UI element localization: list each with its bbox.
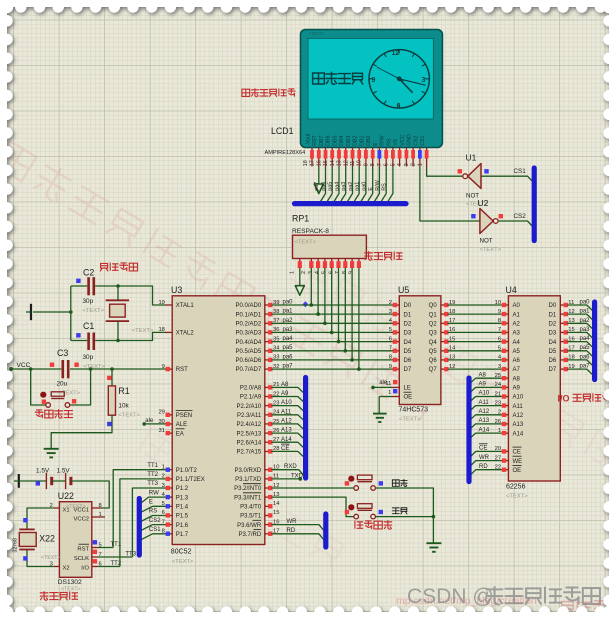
- U3 right pin P0.1/AD1 (38): [265, 313, 272, 315]
- svg-text:A10: A10: [479, 391, 490, 397]
- svg-text:pa4: pa4: [580, 336, 591, 342]
- X22 pin state squares (blue): [23, 518, 27, 522]
- wire LCD pin12 (DB3) to data bus with net label pa3: [348, 167, 353, 202]
- U3 right pin P3.7/RD (17): [265, 533, 272, 535]
- svg-text:CS2: CS2: [413, 135, 419, 145]
- wire LCD pin15 (DB6) to data bus with net label pa6: [327, 167, 332, 202]
- red caption 晶振电路 (crystal oscillator circuit): [100, 263, 137, 271]
- U4 left pin A10 (21): [502, 396, 509, 398]
- svg-text:pa0: pa0: [283, 300, 294, 306]
- LCD clock center dot: [397, 76, 402, 81]
- svg-text:U22: U22: [58, 491, 74, 501]
- svg-text:7: 7: [389, 346, 392, 352]
- svg-text:CS1: CS1: [420, 135, 426, 145]
- U3 right pin P2.6/A14 (27): [265, 441, 272, 443]
- U4 left pin A9 (24): [502, 386, 509, 388]
- svg-text:VCC1: VCC1: [74, 508, 89, 514]
- svg-text:TT3: TT3: [147, 481, 158, 487]
- svg-text:RST: RST: [312, 134, 318, 145]
- wire U5 Q2 to U4 A2: [448, 322, 502, 324]
- faint pink diagonal watermark line B: [290, 253, 616, 471]
- battery pin state square (blue): [36, 481, 40, 485]
- wire RP1 pin3 down to P0.1 net (pa1): [317, 268, 319, 314]
- wire net CE: U3 P2.7 to address bus: [272, 451, 304, 456]
- wire C1 right to XTAL2: [95, 332, 165, 340]
- svg-text:Q1: Q1: [429, 312, 438, 318]
- svg-text:6: 6: [389, 336, 392, 342]
- svg-text:U5: U5: [398, 285, 409, 295]
- U4 left pin A8 (25): [502, 377, 509, 379]
- svg-text:pa1: pa1: [355, 182, 361, 191]
- U3 left pin PSEN (29): [166, 414, 173, 416]
- svg-text:D3: D3: [404, 331, 412, 337]
- svg-text:XTAL2: XTAL2: [176, 331, 195, 337]
- U5 right pin Q4 (15): [441, 341, 448, 343]
- U4 left pin WE (27): [502, 460, 509, 462]
- wire U5 Q3 to U4 A3: [448, 331, 502, 333]
- svg-text:V0: V0: [393, 139, 399, 146]
- wire net TT2: U3 P1.1 to U22 I/O: [120, 479, 166, 567]
- U5 left pin D1 (3): [393, 313, 400, 315]
- svg-text:NOT: NOT: [480, 238, 493, 245]
- svg-text:5: 5: [389, 327, 392, 333]
- U3 right pin P0.5/AD5 (34): [265, 350, 272, 352]
- svg-text:RS: RS: [149, 509, 157, 515]
- svg-text:EA: EA: [176, 431, 184, 437]
- wire CS1 from LCD pin1 to U1 output bubble: [427, 167, 463, 177]
- svg-text:LE: LE: [404, 386, 411, 392]
- bus vertical data bus right of U4 (blue): [592, 302, 597, 380]
- svg-text:30p: 30p: [83, 298, 94, 305]
- svg-text:RXD: RXD: [284, 464, 297, 470]
- U4 right pin D7 (19) with net pa7: [560, 368, 567, 370]
- svg-text:62256: 62256: [506, 484, 526, 491]
- svg-text:<TEXT>: <TEXT>: [172, 559, 194, 565]
- svg-text:A7: A7: [513, 367, 521, 373]
- U5 left pin D0 (2): [393, 304, 400, 306]
- U3 left pin XTAL2 (18): [166, 331, 173, 333]
- wire net RW: U3 P1.3 to local bus: [141, 497, 166, 503]
- svg-text:U4: U4: [506, 285, 517, 295]
- U3 left pin P1.5 (6): [166, 515, 173, 517]
- wire LCD pin9 (DB0) to data bus with net label pa0: [368, 167, 373, 202]
- svg-text:RW: RW: [149, 490, 159, 496]
- svg-text:1: 1: [388, 390, 391, 396]
- svg-text:8: 8: [498, 318, 501, 324]
- wire crystal top to C2 net: [117, 286, 119, 300]
- svg-text:D7: D7: [549, 367, 557, 373]
- svg-text:A10: A10: [281, 400, 292, 406]
- svg-text:P0.3/AD3: P0.3/AD3: [236, 331, 262, 337]
- bus vertical DS1302 control bus (blue): [137, 499, 142, 556]
- U4 right pin D6 (18) with net pa6: [560, 359, 567, 361]
- wire LCD pin16 (DB7) to data bus with net label pa7: [321, 167, 326, 202]
- svg-text:A13: A13: [513, 422, 524, 428]
- overline on CE net label at U4: [479, 443, 488, 445]
- U22 pin VCC1 (8): [92, 507, 102, 509]
- wire address bus to U4 A10 (net A10): [469, 397, 502, 403]
- svg-text:3: 3: [389, 309, 392, 315]
- wire net CS2: U3 P1.6 to local bus: [141, 525, 166, 531]
- LCD pin stubs and pin squares with numbers 1-18: [303, 148, 429, 167]
- svg-text:TXD: TXD: [291, 473, 304, 479]
- faint pink diagonal watermark line C: [137, 427, 346, 569]
- push button 调分 (set minute): [348, 504, 354, 510]
- VCC terminal dot: [9, 367, 13, 371]
- ground symbol (keypad): [426, 542, 441, 544]
- U3 left pin P1.4 (5): [166, 505, 173, 507]
- wire LCD pin7 (R/W) to data bus with net label R/W: [381, 167, 386, 202]
- svg-text:P3.0/RXD: P3.0/RXD: [235, 468, 262, 474]
- U3 left pin P1.3 (4): [166, 496, 173, 498]
- LCD clock minute hand: [399, 79, 425, 85]
- svg-text:P0.7/AD7: P0.7/AD7: [236, 367, 262, 373]
- svg-text:RS: RS: [386, 138, 392, 146]
- svg-text:DB7: DB7: [319, 135, 325, 145]
- wire C2 left to left rail: [71, 285, 88, 287]
- red caption 液晶显示电路 (LCD display circuit): [242, 89, 295, 97]
- svg-text:pa7: pa7: [580, 364, 591, 370]
- svg-text:CE: CE: [479, 446, 487, 452]
- svg-text:Q3: Q3: [429, 331, 438, 337]
- svg-text:TT1: TT1: [147, 463, 158, 469]
- svg-text:A14: A14: [513, 431, 524, 437]
- svg-text:P2.2/A10: P2.2/A10: [237, 404, 262, 410]
- U3 right pin P3.0/RXD (10): [265, 469, 272, 471]
- svg-text:A12: A12: [281, 418, 292, 424]
- svg-text:P3.5/T1: P3.5/T1: [240, 514, 262, 520]
- svg-text:<TEXT>: <TEXT>: [132, 328, 154, 334]
- svg-text:C2: C2: [83, 268, 94, 278]
- svg-text:A5: A5: [513, 349, 521, 355]
- U3 left pin P1.2 (3): [166, 487, 173, 489]
- svg-text:SCLK: SCLK: [74, 556, 89, 562]
- svg-text:C1: C1: [83, 321, 94, 331]
- svg-text:<TEXT>: <TEXT>: [399, 417, 421, 423]
- svg-text:pa4: pa4: [334, 182, 340, 191]
- wire address bus to U4 A9 (net A9): [469, 387, 502, 393]
- svg-text:D4: D4: [404, 340, 412, 346]
- svg-text:WE: WE: [513, 459, 523, 465]
- svg-text:P0.2/AD2: P0.2/AD2: [236, 322, 262, 328]
- wire RP1 pin8 down to P0.6 net (pa6): [351, 268, 353, 360]
- wire net A9: U3 P2.1 to address bus: [272, 397, 304, 402]
- svg-text:D5: D5: [404, 349, 412, 355]
- svg-text:X22: X22: [39, 534, 55, 544]
- svg-text:CSDN @: CSDN @: [407, 585, 494, 608]
- svg-text:CS1: CS1: [149, 527, 161, 533]
- U3 right pin P2.5/A13 (26): [265, 432, 272, 434]
- blue diamond marker on pa0 wire: [303, 301, 309, 307]
- LCD LCD1 AMPIRE128X64 outer frame: [301, 30, 443, 148]
- overlines on U3 P3 pin names INT0 INT1 WR RD: [243, 483, 261, 485]
- svg-text:XTAL1: XTAL1: [176, 303, 195, 309]
- memory U4 62256 body: [508, 296, 560, 481]
- svg-text:pa2: pa2: [580, 318, 591, 324]
- U5 left pin D5 (7): [393, 350, 400, 352]
- svg-text:DB0: DB0: [366, 135, 372, 145]
- reset push button: [31, 369, 46, 405]
- svg-text:A11: A11: [479, 400, 490, 406]
- U3 left pin P1.6 (7): [166, 524, 173, 526]
- U5 pin OE (1): [392, 396, 399, 398]
- U3 right pin P2.7/A15 (28): [265, 450, 272, 452]
- faint pink diagonal watermark line A: [0, 139, 437, 422]
- wire net A10: U3 P2.2 to address bus: [272, 406, 304, 411]
- U4 right pin D2 (13) with net pa2: [560, 322, 567, 324]
- svg-text:pa1: pa1: [580, 309, 591, 315]
- U3 left pin P1.7 (8): [166, 533, 173, 535]
- ground symbol (reset circuit): [44, 448, 59, 450]
- U5 left pin D2 (4): [393, 322, 400, 324]
- wire key 调时 to ground junction: [375, 488, 433, 517]
- U5 left pin D4 (6): [393, 341, 400, 343]
- svg-text:<TEXT>: <TEXT>: [83, 308, 105, 314]
- U4 left pin A11 (23): [502, 405, 509, 407]
- svg-text:P1.5: P1.5: [176, 514, 189, 520]
- latch U5 74HC573 body: [399, 296, 441, 405]
- svg-text:<TEXT>: <TEXT>: [295, 240, 317, 246]
- svg-text:Q2: Q2: [429, 322, 438, 328]
- svg-text:CE: CE: [513, 450, 521, 456]
- wire net A11: U3 P2.3 to address bus: [272, 415, 304, 420]
- svg-text:A8: A8: [513, 376, 521, 382]
- U3 right pin P2.4/A12 (25): [265, 423, 272, 425]
- svg-text:74HC573: 74HC573: [399, 407, 429, 414]
- svg-text:RP1: RP1: [292, 214, 309, 224]
- wire net CS1: U3 P1.7 to local bus: [141, 534, 166, 540]
- U5 right pin Q7 (12): [441, 368, 448, 370]
- svg-text:P1.3: P1.3: [176, 495, 189, 501]
- svg-text:pa3: pa3: [580, 327, 591, 333]
- wire net E: U3 P1.4 to local bus: [141, 506, 166, 512]
- wire X1 to crystal X22: [27, 508, 54, 529]
- svg-text:<TEXT>: <TEXT>: [61, 587, 81, 593]
- svg-text:2: 2: [389, 300, 392, 306]
- svg-text:P3.6/WR: P3.6/WR: [237, 523, 262, 529]
- svg-text:9: 9: [389, 364, 392, 370]
- svg-text:R/W: R/W: [375, 179, 381, 190]
- svg-text:Q4: Q4: [429, 340, 438, 346]
- U4 left pin A1 (9): [502, 313, 509, 315]
- red caption 键盘电路 (keyboard circuit): [355, 521, 392, 530]
- wire address bus to U4 A8 (net A8): [469, 378, 502, 384]
- wire net pa1: U3 P0.1 to U5 D1: [272, 313, 394, 315]
- svg-text:P2.0/A8: P2.0/A8: [240, 386, 262, 392]
- wire net A13: U3 P2.5 to address bus: [272, 433, 304, 438]
- U4 right pin D5 (17) with net pa5: [560, 350, 567, 352]
- svg-text:P3.2/INT0: P3.2/INT0: [234, 486, 262, 492]
- gray CSDN watermark text: [407, 585, 600, 608]
- svg-text:D6: D6: [404, 358, 412, 364]
- svg-text:A12: A12: [513, 413, 524, 419]
- svg-text:P1.2: P1.2: [176, 486, 189, 492]
- svg-text:VCC: VCC: [400, 134, 406, 145]
- U22 pin X2 (3): [54, 566, 60, 568]
- LCD clock face circle: [369, 50, 429, 108]
- wire U2 to CS2 bus entry: [498, 221, 532, 227]
- wire ground to rail: [33, 311, 71, 313]
- bus vertical address bus beside U3 (blue): [303, 378, 308, 479]
- U22 pin SCLK (7) to net TT3: [92, 556, 98, 558]
- bus vertical right of inverters (blue): [532, 168, 537, 241]
- wire LCD pin13 (DB4) to data bus with net label pa4: [341, 167, 346, 202]
- wire RP1 pin4 down to P0.2 net (pa2): [324, 268, 326, 324]
- capacitor C3 plates (on rail): [61, 360, 64, 378]
- wire RP1 pin1 to terminal arrow: [299, 268, 301, 286]
- wire net A14: U3 P2.6 to address bus: [272, 442, 304, 447]
- wire X2 to crystal X22: [27, 550, 54, 567]
- svg-text:R1: R1: [118, 386, 129, 396]
- U3 right pin P3.2/INT0 (12): [265, 487, 272, 489]
- U4 left pin CE (20): [502, 450, 509, 452]
- U4 left pin A6 (4): [502, 359, 509, 361]
- svg-text:P2.1/A9: P2.1/A9: [240, 395, 262, 401]
- svg-text:P2.7/A15: P2.7/A15: [237, 450, 262, 456]
- U3 right pin P0.2/AD2 (37): [265, 322, 272, 324]
- svg-text:9: 9: [372, 77, 376, 84]
- svg-text:RESPACK-8: RESPACK-8: [292, 228, 329, 235]
- svg-text:Q6: Q6: [429, 358, 438, 364]
- svg-text:1.5V: 1.5V: [57, 468, 71, 475]
- U22 pin I/O (6) to net TT2: [92, 566, 98, 568]
- svg-text:LCD1: LCD1: [271, 126, 294, 136]
- U3 right pin P3.3/INT1 (13): [265, 496, 272, 498]
- resistor R1 body: [111, 369, 113, 386]
- svg-text:WR: WR: [479, 455, 490, 461]
- LCD clock tick marks: [369, 50, 429, 108]
- U4 left pin A13 (26): [502, 423, 509, 425]
- svg-text:9: 9: [498, 309, 501, 315]
- svg-text:D2: D2: [404, 322, 412, 328]
- svg-text:5: 5: [498, 346, 501, 352]
- wire battery to DS1302 VCC1: [71, 481, 109, 508]
- svg-text:DB1: DB1: [359, 135, 365, 145]
- faint red watermark characters bottom right corner: [562, 601, 616, 614]
- svg-text:U3: U3: [171, 285, 182, 295]
- C2 pin state square (blue): [76, 279, 80, 283]
- U1 input pin state square (red): [458, 169, 462, 173]
- svg-text:29: 29: [158, 410, 164, 416]
- LCD clock second hand: [377, 67, 404, 81]
- wire U5 Q5 to U4 A5: [448, 350, 502, 352]
- svg-text:A12: A12: [479, 409, 490, 415]
- wire bus to U4 CE (net CE): [469, 451, 502, 458]
- svg-text:1.5V: 1.5V: [36, 468, 50, 475]
- svg-text:RST: RST: [176, 367, 188, 373]
- svg-text:6: 6: [397, 103, 401, 110]
- svg-text:DB5: DB5: [332, 135, 338, 145]
- wire bus to U4 OE (net RD): [469, 470, 502, 477]
- wire net RXD from U3 P3.0 to bus: [272, 470, 305, 476]
- wire net pa5: U3 P0.5 to U5 D5: [272, 350, 394, 352]
- svg-text:8: 8: [389, 355, 392, 361]
- svg-text:E: E: [368, 187, 374, 191]
- svg-text:A13: A13: [281, 428, 292, 434]
- svg-text:A0: A0: [513, 303, 521, 309]
- U4 right pin D3 (15) with net pa3: [560, 331, 567, 333]
- svg-text:RS: RS: [382, 183, 388, 191]
- U1 output pin state square (blue): [484, 169, 488, 173]
- wire RP1 pin9 down to P0.7 net (pa7): [358, 268, 360, 369]
- U4 right pin D4 (16) with net pa4: [560, 341, 567, 343]
- svg-text:pa6: pa6: [283, 354, 294, 360]
- svg-text:A10: A10: [513, 395, 524, 401]
- U5 right pin Q0 (19): [441, 304, 448, 306]
- svg-text:pa2: pa2: [348, 182, 354, 191]
- U3 right pin P0.3/AD3 (36): [265, 331, 272, 333]
- red caption 复位电路 (reset circuit): [35, 410, 72, 419]
- U4 left pin A14 (1): [502, 432, 509, 434]
- svg-text:GND: GND: [407, 134, 413, 146]
- U22 pin X1 (2): [54, 507, 60, 509]
- reset button pin state squares (red): [42, 400, 46, 404]
- U3 right pin P0.7/AD7 (32): [265, 368, 272, 370]
- U3 right pin P3.4/T0 (14): [265, 505, 272, 507]
- svg-text:ALE: ALE: [176, 422, 187, 428]
- svg-text:OE: OE: [404, 395, 413, 401]
- svg-text:10k: 10k: [118, 403, 129, 410]
- svg-text:RST: RST: [77, 547, 89, 553]
- svg-text:12: 12: [392, 50, 400, 57]
- svg-text:TT2: TT2: [147, 472, 158, 478]
- label 调时 (adjust hour): [392, 479, 407, 486]
- C1 pin state square (blue): [76, 333, 80, 337]
- svg-text:<TEXT>: <TEXT>: [480, 247, 502, 253]
- svg-text:P2.6/A14: P2.6/A14: [237, 440, 262, 446]
- svg-text:RD: RD: [479, 464, 488, 470]
- svg-text:2: 2: [301, 271, 307, 274]
- svg-text:15: 15: [273, 510, 279, 516]
- svg-text:<TEXT>: <TEXT>: [118, 413, 140, 419]
- capacitor C2 plates: [87, 277, 90, 295]
- svg-text:U1: U1: [466, 153, 477, 163]
- svg-text:pa1: pa1: [283, 309, 294, 315]
- svg-text:3: 3: [422, 77, 426, 84]
- U3 right pin P3.6/WR (16): [265, 524, 272, 526]
- svg-text:D0: D0: [404, 303, 412, 309]
- U3 right pin P3.5/T1 (15): [265, 515, 272, 517]
- wire net A8: U3 P2.0 to address bus: [272, 387, 304, 392]
- C3 pin state squares (red): [50, 363, 54, 367]
- U5 left pin D3 (5): [393, 331, 400, 333]
- svg-text:P0.5/AD5: P0.5/AD5: [236, 349, 262, 355]
- svg-text:pa0: pa0: [361, 182, 367, 191]
- wire U5 Q7 to U4 A7: [448, 368, 502, 370]
- wire net TT3: U3 P1.2 to U22 SCLK: [132, 488, 165, 557]
- resistor pack RP1 body: [293, 235, 367, 258]
- svg-text:P1.0/T2: P1.0/T2: [176, 468, 198, 474]
- svg-text:pa5: pa5: [328, 182, 334, 191]
- svg-text:X2: X2: [63, 566, 70, 572]
- wire net RS: U3 P1.5 to local bus: [141, 516, 166, 522]
- svg-text:CS1: CS1: [514, 168, 527, 175]
- wire U3 P3.6 WR to WR/RD bus: [272, 525, 325, 531]
- svg-text:Q5: Q5: [429, 349, 438, 355]
- U22 pin VCC2 (1): [92, 516, 105, 518]
- U4 left pin OE (22): [502, 469, 509, 471]
- svg-text:P0.1/AD1: P0.1/AD1: [236, 312, 262, 318]
- svg-text:pa7: pa7: [314, 182, 320, 191]
- push button 调时 (set hour): [348, 476, 354, 482]
- svg-text:3: 3: [498, 364, 501, 370]
- U3 left pin P1.1/T2EX (2): [166, 478, 173, 480]
- U3 left pin P1.0/T2 (1): [166, 469, 173, 471]
- svg-text:P3.3/INT1: P3.3/INT1: [234, 495, 262, 501]
- svg-text:E: E: [149, 500, 153, 506]
- wire LCD pin14 (DB5) to data bus with net label pa5: [334, 167, 339, 202]
- U5 right pin Q1 (18): [441, 313, 448, 315]
